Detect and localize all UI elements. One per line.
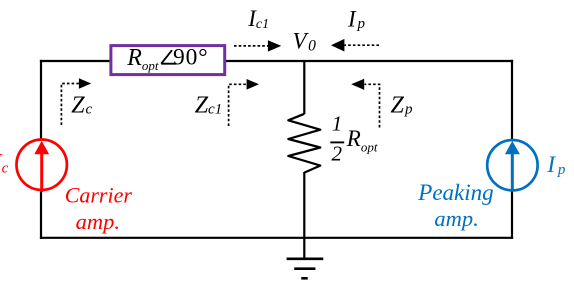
impedance Zp dashed arrow bbox=[351, 79, 379, 128]
svg-text:amp.: amp. bbox=[76, 209, 120, 234]
wire left bbox=[40, 60, 42, 239]
wire top bbox=[40, 60, 513, 62]
current source carrier arrow bbox=[34, 141, 49, 192]
fraction bar bbox=[330, 141, 344, 143]
wire middle branch bottom stem bbox=[303, 172, 305, 238]
wire bottom bbox=[40, 237, 513, 239]
svg-text:Ic1: Ic1 bbox=[247, 6, 269, 32]
svg-text:2: 2 bbox=[332, 141, 343, 165]
svg-text:Ic: Ic bbox=[0, 150, 9, 177]
wire right bbox=[511, 60, 513, 239]
ground bar 1 bbox=[287, 257, 324, 260]
svg-text:Peaking: Peaking bbox=[417, 180, 493, 205]
svg-text:Carrier: Carrier bbox=[65, 183, 133, 208]
ground bar 3 bbox=[301, 277, 307, 280]
ground bar 2 bbox=[294, 267, 315, 270]
current Ic1 dashed arrow bbox=[234, 40, 281, 51]
angle symbol in box bbox=[161, 50, 176, 64]
label Carrier amp. bbox=[65, 183, 133, 234]
svg-text:Zc1: Zc1 bbox=[195, 93, 223, 119]
current Ip dashed arrow bbox=[331, 39, 379, 52]
svg-text:Zc: Zc bbox=[71, 93, 92, 119]
svg-text:90°: 90° bbox=[173, 44, 209, 70]
current source peaking arrow bbox=[505, 141, 520, 191]
impedance Zc dashed arrow bbox=[61, 78, 91, 125]
svg-text:1: 1 bbox=[332, 112, 343, 136]
svg-text:Zp: Zp bbox=[391, 93, 414, 119]
current source peaking circle bbox=[487, 140, 537, 190]
ground stem bbox=[303, 237, 305, 260]
impedance Zc1 dashed arrow bbox=[229, 79, 259, 126]
wire middle branch top stem bbox=[303, 61, 305, 114]
svg-text:V0: V0 bbox=[293, 29, 317, 55]
quarter-wave line box Ropt angle 90 bbox=[111, 46, 225, 75]
current source carrier circle bbox=[17, 140, 67, 190]
label Peaking amp. bbox=[417, 180, 493, 231]
resistor 1/2 Ropt zigzag bbox=[288, 114, 320, 173]
svg-text:amp.: amp. bbox=[434, 206, 478, 231]
svg-text:Ip: Ip bbox=[546, 152, 565, 178]
svg-text:Ropt: Ropt bbox=[346, 126, 378, 154]
svg-text:Ip: Ip bbox=[347, 7, 365, 33]
